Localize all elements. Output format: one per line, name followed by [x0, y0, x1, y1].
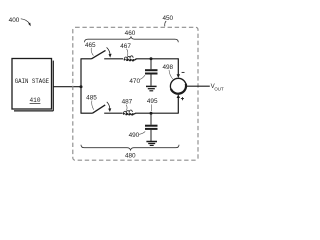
svg-text:460: 460: [125, 30, 136, 37]
svg-text:410: 410: [30, 97, 41, 104]
svg-text:485: 485: [86, 94, 97, 101]
svg-text:487: 487: [122, 99, 133, 106]
svg-text:467: 467: [120, 43, 131, 50]
wire input riser: [80, 59, 82, 113]
svg-text:400: 400: [9, 17, 20, 24]
dashed block 450: [73, 27, 198, 160]
brace 480: [81, 145, 179, 160]
ground (top): [146, 86, 157, 90]
capacitor 470: [145, 59, 158, 86]
label 467: [120, 43, 131, 56]
wire output: [186, 85, 210, 87]
op-amp U498: [170, 78, 186, 94]
wire top branch right: [136, 58, 179, 60]
svg-text:490: 490: [129, 132, 140, 139]
inductor 487: [123, 110, 136, 116]
wire bottom branch right: [135, 112, 178, 114]
node dot cap470: [150, 57, 153, 60]
svg-text:GAIN STAGE: GAIN STAGE: [15, 78, 50, 85]
inductor 467: [123, 56, 136, 62]
svg-text:498: 498: [162, 64, 173, 71]
svg-text:470: 470: [129, 78, 140, 85]
svg-text:495: 495: [147, 98, 158, 105]
wire to amp minus: [177, 58, 185, 78]
label 450: [162, 15, 173, 26]
node VOUT: [211, 83, 224, 91]
label 485: [86, 94, 97, 110]
svg-text:465: 465: [85, 42, 96, 49]
node 400 label: [9, 17, 31, 26]
label 498: [162, 64, 173, 79]
wire gain stage output: [53, 86, 81, 88]
label 495: [147, 98, 158, 111]
label 465: [85, 42, 96, 56]
wire bottom branch left: [81, 112, 93, 114]
brace 460: [85, 30, 179, 42]
label 487: [122, 99, 133, 111]
switch 485: [93, 102, 112, 113]
svg-text:480: 480: [125, 152, 136, 159]
wire to amp plus: [177, 94, 184, 113]
svg-text:OUT: OUT: [214, 86, 224, 91]
svg-text:450: 450: [162, 15, 173, 22]
capacitor 490: [145, 113, 158, 141]
gain stage block 410: [12, 59, 53, 111]
wire top branch mid: [104, 58, 123, 60]
switch 465: [92, 47, 112, 58]
label 470: [129, 75, 145, 85]
label 490: [129, 132, 146, 140]
wire bottom branch mid: [104, 112, 122, 114]
ground (bottom): [146, 142, 157, 146]
node 495 dot: [150, 112, 153, 115]
node junction dot: [80, 85, 83, 88]
wire top branch left: [81, 58, 92, 60]
